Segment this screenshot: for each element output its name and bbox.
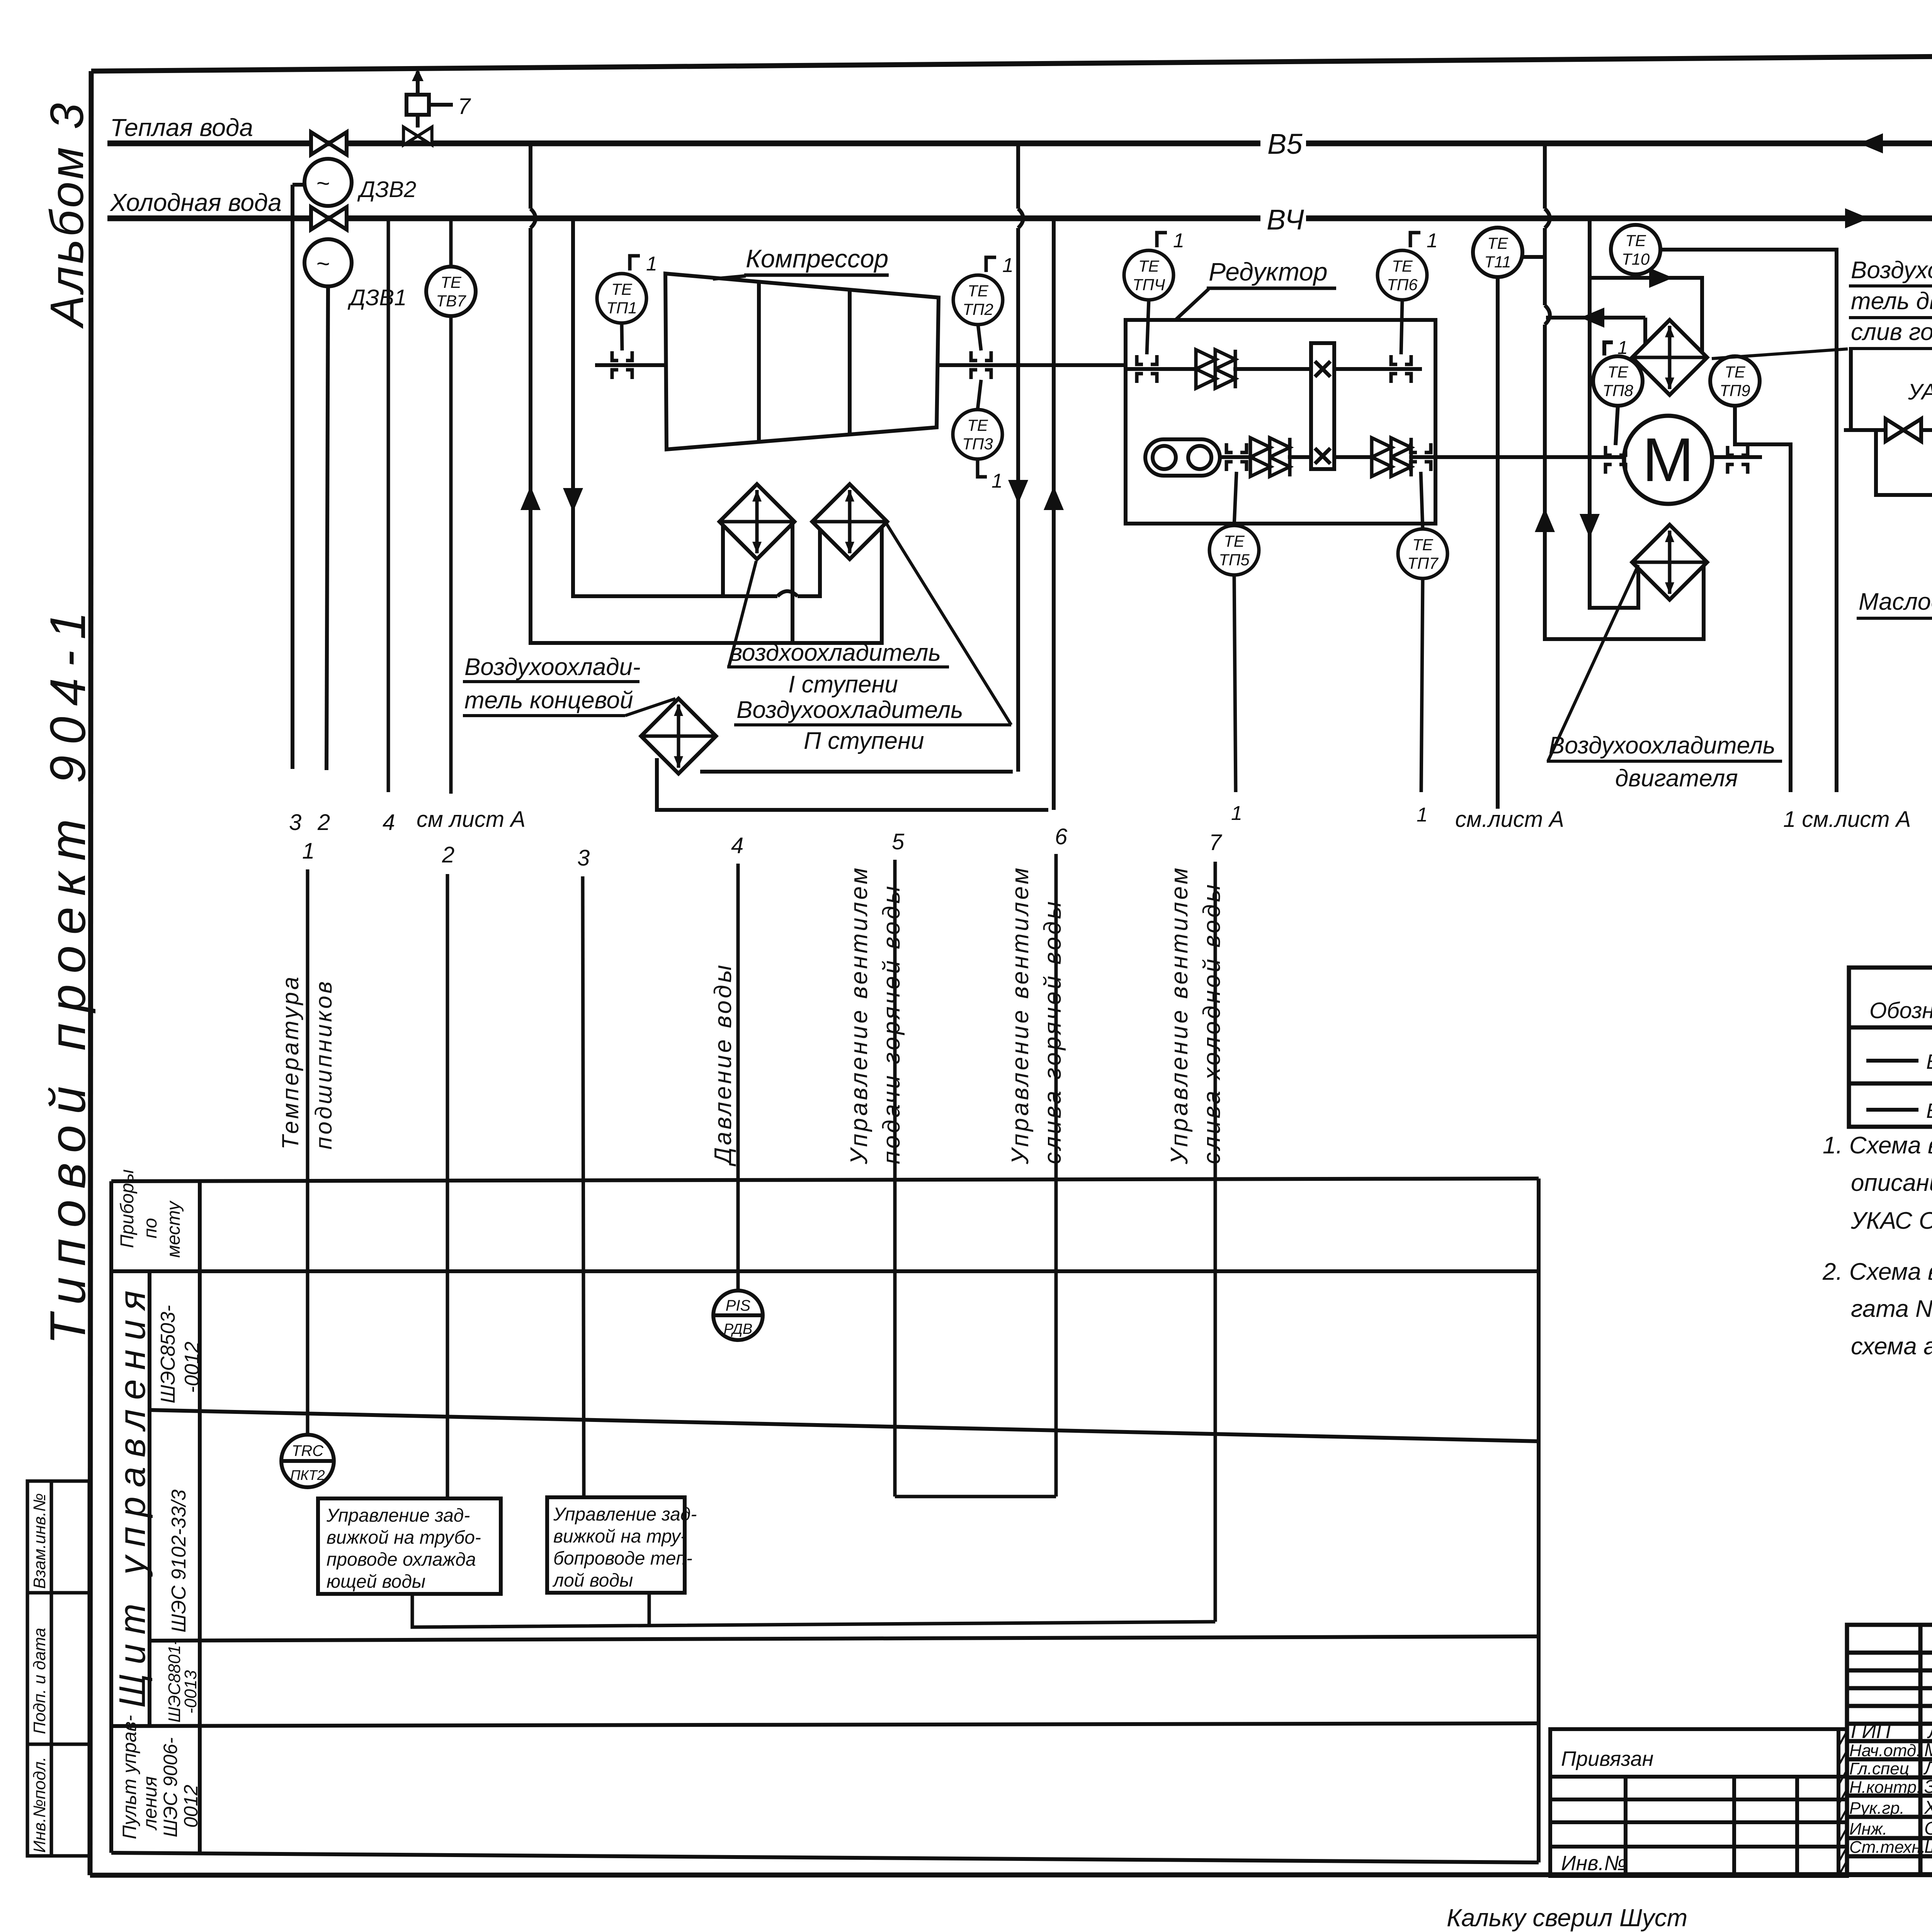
svg-text:Управление зад-: Управление зад- — [553, 1504, 697, 1525]
svg-text:Теплая вода: Теплая вода — [110, 114, 253, 141]
svg-text:Маслоохладитель: Маслоохладитель — [1859, 588, 1932, 615]
svg-text:ГИП: ГИП — [1851, 1720, 1891, 1743]
svg-text:1: 1 — [646, 253, 657, 275]
svg-text:В5: В5 — [1267, 128, 1303, 160]
svg-text:ТЕ: ТЕ — [1607, 363, 1629, 381]
svg-text:ВЧ: ВЧ — [1267, 204, 1304, 236]
svg-text:бопроводе теп-: бопроводе теп- — [553, 1548, 692, 1569]
svg-text:1. Схема выполнена на основани: 1. Схема выполнена на основании техничес… — [1823, 1132, 1932, 1159]
svg-text:4: 4 — [383, 810, 395, 835]
svg-text:3: 3 — [577, 845, 590, 871]
svg-text:ТЕ: ТЕ — [968, 282, 989, 300]
svg-text:7: 7 — [1209, 830, 1223, 855]
svg-text:Инв.№подл.: Инв.№подл. — [30, 1757, 49, 1853]
svg-text:M: M — [1642, 425, 1694, 494]
svg-text:Компрессор: Компрессор — [746, 244, 888, 273]
svg-text:слива горячей воды: слива горячей воды — [1039, 899, 1066, 1164]
svg-text:ТП6: ТП6 — [1387, 276, 1418, 294]
svg-text:ШЭС 9006-: ШЭС 9006- — [160, 1737, 181, 1837]
svg-text:Приборы: Приборы — [117, 1169, 138, 1248]
svg-text:2: 2 — [442, 842, 454, 867]
svg-text:Воздухоохладитель: Воздухоохладитель — [736, 697, 963, 723]
svg-text:Привязан: Привязан — [1561, 1747, 1653, 1770]
svg-text:ШЭС8503-: ШЭС8503- — [157, 1305, 179, 1404]
svg-text:ТВ7: ТВ7 — [436, 292, 466, 310]
svg-text:ДЗВ1: ДЗВ1 — [347, 285, 406, 310]
svg-text:3: 3 — [289, 810, 301, 835]
svg-text:-0013: -0013 — [181, 1670, 200, 1714]
svg-text:ТП1: ТП1 — [606, 299, 637, 317]
svg-text:Воздухоохладитель: Воздухоохладитель — [1549, 732, 1776, 759]
svg-text:ДЗВ2: ДЗВ2 — [357, 177, 416, 202]
svg-text:Редуктор: Редуктор — [1209, 257, 1328, 286]
svg-text:0012: 0012 — [180, 1785, 202, 1828]
svg-text:Инв.№: Инв.№ — [1561, 1852, 1627, 1875]
svg-text:1 см.лист А: 1 см.лист А — [1783, 807, 1911, 832]
svg-text:гата N1, для компрессорных агр: гата N1, для компрессорных агрегатов N°2… — [1851, 1296, 1932, 1322]
svg-text:ШЭС 9102-33/3: ШЭС 9102-33/3 — [168, 1490, 190, 1633]
svg-text:Типовой проект 904-1: Типовой проект 904-1 — [39, 601, 96, 1345]
svg-text:описания и инструкции по: описания и инструкции по эксплуатации — [1851, 1170, 1932, 1196]
svg-text:ТЕ: ТЕ — [967, 416, 988, 434]
svg-text:П ступени: П ступени — [804, 728, 924, 754]
svg-text:Мажников: Мажников — [1924, 1740, 1932, 1760]
svg-text:тель двигателя: тель двигателя — [1851, 288, 1932, 315]
svg-text:2: 2 — [317, 810, 330, 835]
svg-text:проводе охлажда: проводе охлажда — [327, 1549, 476, 1570]
svg-text:ТЕ: ТЕ — [1224, 532, 1245, 550]
svg-text:Обозначение: Обозначение — [1869, 998, 1932, 1023]
svg-text:Кальку сверил Шуст: Кальку сверил Шуст — [1447, 1904, 1687, 1932]
svg-text:1: 1 — [1002, 254, 1014, 277]
svg-text:Управление зад-: Управление зад- — [326, 1505, 470, 1526]
svg-text:ТЕ: ТЕ — [1725, 363, 1746, 381]
svg-text:ТП7: ТП7 — [1407, 554, 1439, 572]
svg-text:ющей воды: ющей воды — [327, 1571, 425, 1592]
svg-text:PIS: PIS — [726, 1297, 751, 1314]
svg-text:тель концевой: тель концевой — [464, 687, 633, 714]
svg-text:см лист А: см лист А — [417, 807, 526, 832]
svg-text:Рук.гр.: Рук.гр. — [1849, 1799, 1905, 1818]
svg-text:по: по — [140, 1218, 161, 1238]
svg-text:ТП5: ТП5 — [1219, 551, 1250, 569]
svg-text:ТПЧ: ТПЧ — [1133, 276, 1165, 294]
svg-text:Ст.техн.: Ст.техн. — [1849, 1838, 1926, 1857]
svg-text:ВЧ: ВЧ — [1926, 1050, 1932, 1073]
svg-text:слив горячей воды: слив горячей воды — [1851, 319, 1932, 345]
svg-text:Воздухоохлади-: Воздухоохлади- — [1851, 257, 1932, 284]
svg-text:ления: ления — [139, 1776, 161, 1831]
svg-text:Т11: Т11 — [1484, 253, 1511, 271]
svg-text:Пульт управ-: Пульт управ- — [119, 1715, 140, 1839]
svg-text:В5: В5 — [1926, 1099, 1932, 1122]
svg-text:Управление вентилем: Управление вентилем — [1007, 866, 1034, 1165]
svg-text:1: 1 — [1173, 230, 1184, 252]
svg-text:вижкой на трубо-: вижкой на трубо- — [327, 1527, 481, 1548]
svg-text:Н.контр.: Н.контр. — [1849, 1778, 1921, 1797]
svg-text:ПКТ2: ПКТ2 — [290, 1467, 325, 1483]
svg-text:подачи горячей воды: подачи горячей воды — [878, 884, 905, 1164]
svg-text:Гл.спец: Гл.спец — [1849, 1759, 1909, 1778]
svg-text:РДВ: РДВ — [724, 1321, 752, 1337]
svg-text:Управление вентилем: Управление вентилем — [846, 866, 872, 1165]
svg-text:УКАС ОБХ 466. 057 рис. 21.: УКАС ОБХ 466. 057 рис. 21. — [1850, 1207, 1932, 1234]
svg-text:ТП2: ТП2 — [963, 300, 993, 318]
svg-text:6: 6 — [1055, 824, 1068, 849]
svg-text:ТЕ: ТЕ — [1412, 536, 1434, 554]
svg-text:лой воды: лой воды — [552, 1570, 633, 1591]
svg-text:месту: месту — [163, 1200, 184, 1258]
svg-text:Альбом 3: Альбом 3 — [41, 101, 93, 329]
svg-text:Т10: Т10 — [1622, 250, 1650, 268]
svg-text:Христофоров: Христофоров — [1924, 1798, 1932, 1818]
svg-text:Щит управления: Щит управления — [112, 1281, 153, 1708]
svg-text:4: 4 — [731, 833, 743, 858]
svg-text:Инж.: Инж. — [1849, 1820, 1887, 1838]
svg-text:1: 1 — [992, 470, 1003, 492]
svg-text:схема аналогична.: схема аналогична. — [1851, 1333, 1932, 1360]
svg-text:подшипников: подшипников — [311, 979, 337, 1150]
svg-text:2. Схема выполнена для компр: 2. Схема выполнена для компрессорного аг… — [1822, 1259, 1932, 1285]
svg-text:ТЕ: ТЕ — [611, 280, 633, 298]
svg-text:Управление вентилем: Управление вентилем — [1166, 866, 1193, 1165]
svg-text:Золотарева: Золотарева — [1924, 1777, 1932, 1797]
svg-text:Склярова: Склярова — [1924, 1818, 1932, 1839]
svg-text:Давление воды: Давление воды — [710, 963, 736, 1167]
svg-text:ТЕ: ТЕ — [1138, 257, 1160, 275]
svg-text:ТЕ: ТЕ — [1487, 234, 1509, 252]
svg-text:Левинский: Левинский — [1923, 1758, 1932, 1779]
svg-text:УА3: УА3 — [1908, 379, 1932, 405]
svg-text:Подп. и дата: Подп. и дата — [30, 1628, 49, 1734]
svg-text:1: 1 — [302, 838, 315, 864]
svg-text:воздхоохладитель: воздхоохладитель — [730, 639, 941, 666]
svg-text:см.лист А: см.лист А — [1455, 807, 1564, 832]
svg-text:двигателя: двигателя — [1615, 765, 1738, 792]
svg-text:Нач.отд.: Нач.отд. — [1849, 1741, 1921, 1760]
svg-text:I ступени: I ступени — [788, 671, 898, 698]
svg-text:5: 5 — [892, 829, 905, 854]
svg-text:~: ~ — [316, 170, 330, 196]
svg-text:ТЕ: ТЕ — [440, 273, 462, 291]
svg-text:1: 1 — [1417, 804, 1428, 826]
svg-text:Воздухоохлади-: Воздухоохлади- — [464, 654, 641, 680]
svg-text:ТЕ: ТЕ — [1625, 231, 1646, 250]
svg-text:~: ~ — [316, 251, 330, 277]
svg-text:ТП3: ТП3 — [962, 435, 993, 453]
svg-text:вижкой на тру-: вижкой на тру- — [553, 1526, 687, 1547]
svg-text:ТЕ: ТЕ — [1392, 257, 1413, 275]
svg-text:-0012: -0012 — [181, 1342, 203, 1393]
svg-text:7: 7 — [458, 94, 471, 119]
svg-text:TRC: TRC — [292, 1442, 324, 1459]
svg-text:ТП8: ТП8 — [1602, 381, 1633, 400]
svg-text:ТП9: ТП9 — [1719, 381, 1750, 400]
svg-text:слива холодной воды: слива холодной воды — [1199, 882, 1225, 1164]
svg-text:Холодная вода: Холодная вода — [109, 189, 282, 216]
svg-text:Шуст: Шуст — [1924, 1837, 1932, 1857]
svg-text:1: 1 — [1617, 338, 1628, 358]
svg-text:Температура: Температура — [277, 975, 303, 1150]
svg-text:1: 1 — [1231, 802, 1242, 825]
svg-text:Взам.инв.№: Взам.инв.№ — [30, 1493, 49, 1589]
svg-text:1: 1 — [1427, 230, 1438, 252]
